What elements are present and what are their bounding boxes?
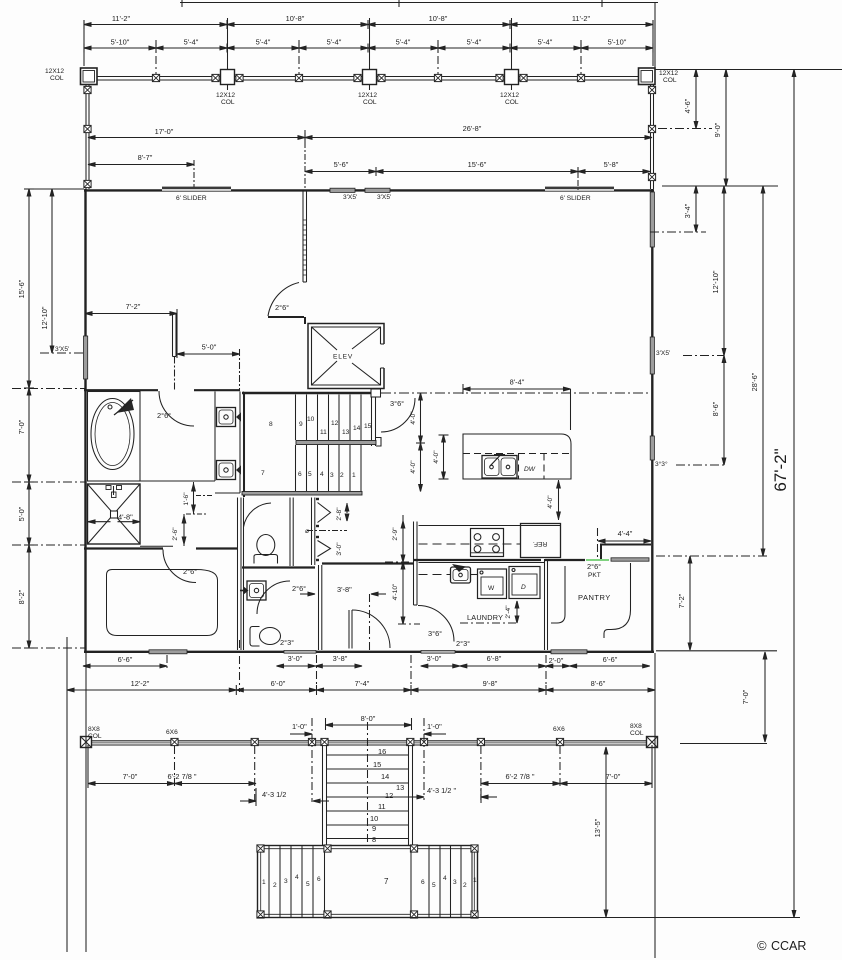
bath top wall xyxy=(84,389,240,391)
overall dim 67'-2" xyxy=(771,70,796,918)
stair risers upper run xyxy=(296,395,362,441)
house right wall xyxy=(651,189,653,653)
svg-text:4: 4 xyxy=(295,874,299,881)
entry door 2'6" arc xyxy=(268,283,299,317)
svg-text:ELEV: ELEV xyxy=(333,354,353,361)
chase walls xyxy=(312,498,315,566)
svg-text:12X12: 12X12 xyxy=(358,92,377,99)
svg-text:11: 11 xyxy=(378,802,386,811)
svg-text:17'-0": 17'-0" xyxy=(155,127,174,136)
stair mid landing rail xyxy=(296,438,381,447)
stair east wall xyxy=(372,397,376,446)
laundry dim 2'-4" xyxy=(460,601,519,623)
svg-text:PANTRY: PANTRY xyxy=(578,593,611,602)
svg-text:2: 2 xyxy=(340,472,344,479)
site boundary verticals xyxy=(67,637,655,958)
copyright CCAR xyxy=(757,938,806,953)
landing tread numbers xyxy=(262,874,477,889)
top cut-off border line xyxy=(180,0,658,7)
svg-text:10: 10 xyxy=(307,416,315,423)
porch dim 17'-0" and 26'-8" xyxy=(88,124,652,142)
refrigerator xyxy=(521,524,561,558)
svg-text:14: 14 xyxy=(381,772,389,781)
svg-text:10: 10 xyxy=(370,814,378,823)
12X12 column B xyxy=(212,70,243,85)
svg-text:9: 9 xyxy=(299,421,303,428)
svg-text:12'-10": 12'-10" xyxy=(711,270,720,293)
bath door 2'6" arc xyxy=(157,391,194,426)
powder sink xyxy=(240,581,266,600)
svg-text:2°6°: 2°6° xyxy=(587,562,601,571)
svg-text:4'-10": 4'-10" xyxy=(392,583,399,600)
svg-text:4'-4": 4'-4" xyxy=(618,529,633,538)
stair tread numbers xyxy=(261,416,372,479)
svg-text:15: 15 xyxy=(364,423,372,430)
shower xyxy=(88,484,141,544)
laundry sink xyxy=(451,564,471,583)
upper stair treads xyxy=(327,755,409,839)
bottom wall windows 3'x5' xyxy=(149,650,187,654)
svg-text:2°6°: 2°6° xyxy=(183,567,197,576)
3'x5' window top A xyxy=(330,188,355,192)
hall dim 3'-8" xyxy=(300,585,386,651)
dim 3'-0" vertical hall xyxy=(305,528,320,535)
svg-text:4: 4 xyxy=(320,471,324,478)
svg-text:3'-0": 3'-0" xyxy=(336,542,343,556)
svg-text:5: 5 xyxy=(432,882,436,889)
pocket door green label 2'6" PKT xyxy=(586,560,609,579)
3'x5' window left wall xyxy=(84,336,88,379)
svg-text:8X8: 8X8 xyxy=(630,723,642,730)
svg-text:28'-6": 28'-6" xyxy=(750,372,759,391)
bottom extension dash-dot lines xyxy=(167,640,546,692)
svg-text:5'-4": 5'-4" xyxy=(396,38,411,47)
pantry shelf outline right xyxy=(604,563,631,638)
left dim column 15'-6"/7'-0"/5'-0"/8'-2" xyxy=(17,189,34,648)
left dim 12'-10" xyxy=(29,189,84,353)
svg-text:5'-0": 5'-0" xyxy=(202,343,217,352)
svg-text:CCAR: CCAR xyxy=(771,939,806,953)
tub room xyxy=(88,392,141,482)
master bedroom east wall xyxy=(173,314,177,390)
right horizontal line at porch wall level xyxy=(662,185,778,187)
svg-text:3°3°: 3°3° xyxy=(655,460,668,468)
svg-text:3°6°: 3°6° xyxy=(390,399,404,408)
bed2 top wall xyxy=(84,546,238,548)
pocket door pocket (gray) xyxy=(611,558,649,561)
svg-text:2: 2 xyxy=(463,882,467,889)
landing deck xyxy=(258,846,478,918)
svg-text:5'-10": 5'-10" xyxy=(608,38,627,47)
svg-text:15'-6": 15'-6" xyxy=(17,279,26,298)
vanity sink 1 xyxy=(217,408,242,427)
dimension row 2: 5'-10" / 5'-4" x6 / 5'-10" xyxy=(84,38,653,53)
svg-text:8: 8 xyxy=(269,421,273,428)
svg-text:14: 14 xyxy=(353,425,361,432)
dim 4'-4" xyxy=(598,528,652,560)
lower porch 6x6 columns xyxy=(171,738,178,745)
bottom wall sills xyxy=(284,650,316,653)
porch beam (double line) xyxy=(84,77,654,81)
svg-text:12X12: 12X12 xyxy=(500,92,519,99)
svg-text:2'-9": 2'-9" xyxy=(392,527,399,541)
right top horizontal line xyxy=(655,69,842,71)
svg-text:7'-2": 7'-2" xyxy=(126,302,141,311)
svg-text:6'-2 7/8 ": 6'-2 7/8 " xyxy=(505,772,534,781)
svg-text:7'-0": 7'-0" xyxy=(606,772,621,781)
dims 1'-0" xyxy=(290,722,446,736)
dryer xyxy=(509,567,540,599)
washer xyxy=(478,569,507,599)
dims 4'-3 1/2" xyxy=(240,786,497,806)
svg-text:8'-6": 8'-6" xyxy=(711,401,720,416)
bath2 door arc xyxy=(244,503,272,527)
svg-text:3'X5': 3'X5' xyxy=(377,194,391,201)
svg-text:6'-2 7/8 ": 6'-2 7/8 " xyxy=(167,772,196,781)
svg-text:8'-7": 8'-7" xyxy=(138,153,153,162)
svg-text:5'-4": 5'-4" xyxy=(538,38,553,47)
bath small dims 1'-6" 2'-6" xyxy=(172,482,214,546)
svg-text:3'-0": 3'-0" xyxy=(288,654,303,663)
right dim 9'-0" xyxy=(713,70,728,187)
house bottom wall xyxy=(84,651,654,653)
peninsula dims 2'-9" 4'-10" xyxy=(385,515,420,624)
bifold closet doors xyxy=(316,499,331,560)
svg-text:3'X5': 3'X5' xyxy=(656,350,670,357)
svg-text:5'-0": 5'-0" xyxy=(17,506,26,521)
bed2 door arc xyxy=(163,550,197,583)
upper stair run stringers xyxy=(323,745,413,845)
svg-text:10'-8": 10'-8" xyxy=(429,14,448,23)
bed2 west wall xyxy=(238,498,242,651)
right wall windows xyxy=(650,192,654,247)
pantry west wall xyxy=(545,559,548,650)
kitchen division dash-dot line xyxy=(381,392,650,394)
svg-text:3: 3 xyxy=(453,879,457,886)
powder top wall xyxy=(242,566,315,568)
entry wall stub from top wall xyxy=(303,191,307,282)
svg-text:6: 6 xyxy=(298,471,302,478)
svg-text:2°3°: 2°3° xyxy=(456,639,470,648)
svg-text:8: 8 xyxy=(372,835,376,844)
svg-text:12: 12 xyxy=(331,420,339,427)
svg-text:2: 2 xyxy=(273,882,277,889)
laundry north wall xyxy=(413,559,585,561)
svg-text:W: W xyxy=(488,585,495,592)
svg-text:2°6°: 2°6° xyxy=(157,411,171,420)
svg-text:2'-8": 2'-8" xyxy=(336,507,343,521)
elevator shaft xyxy=(308,324,384,389)
svg-text:4'-0": 4'-0" xyxy=(547,495,554,509)
svg-text:©: © xyxy=(757,938,767,953)
dimension row 1: 11'-2" / 10'-8" / 10'-8" / 11'-2" xyxy=(84,14,653,29)
svg-text:7'-0": 7'-0" xyxy=(741,689,750,704)
elevator-side wall hook xyxy=(371,389,381,397)
svg-text:6X6: 6X6 xyxy=(166,729,178,736)
svg-text:PKT: PKT xyxy=(588,572,601,579)
svg-text:5: 5 xyxy=(308,471,312,478)
6' slider door right xyxy=(545,187,614,192)
svg-text:15: 15 xyxy=(373,760,381,769)
svg-text:COL: COL xyxy=(363,99,377,106)
svg-text:3: 3 xyxy=(330,472,334,479)
intermediate porch posts xyxy=(152,74,584,81)
ground line xyxy=(257,917,800,919)
lower porch corner columns 8x8 xyxy=(81,737,92,748)
svg-text:3'-0": 3'-0" xyxy=(427,654,442,663)
column centerline extensions xyxy=(84,3,655,69)
hall door 3'6" arc xyxy=(381,398,415,432)
porch dim 8'-7" xyxy=(88,153,194,189)
12X12 column D xyxy=(496,70,527,85)
svg-text:5'-4": 5'-4" xyxy=(327,38,342,47)
svg-text:8'-2": 8'-2" xyxy=(17,589,26,604)
vanity sink 2 xyxy=(217,461,242,480)
corner column 12X12 top-left xyxy=(81,68,98,85)
lower porch column labels xyxy=(88,723,644,740)
porch dim 5'-6" / 15'-6" / 5'-8" xyxy=(305,130,650,190)
svg-text:12: 12 xyxy=(385,791,393,800)
svg-text:5'-10": 5'-10" xyxy=(111,38,130,47)
range 4 burners xyxy=(471,529,504,557)
stair west wall xyxy=(244,393,246,497)
bed3 door leaf and arc xyxy=(349,610,390,649)
svg-text:1'-0": 1'-0" xyxy=(292,722,307,731)
svg-text:LAUNDRY: LAUNDRY xyxy=(467,613,503,622)
column labels xyxy=(45,68,678,106)
svg-text:7'-4": 7'-4" xyxy=(355,679,370,688)
island-wall dim 4'-0" xyxy=(547,480,560,520)
svg-text:7'-0": 7'-0" xyxy=(17,419,26,434)
svg-text:8X8: 8X8 xyxy=(88,726,100,733)
svg-text:4'-0": 4'-0" xyxy=(410,411,417,425)
wall below entry door xyxy=(268,317,305,324)
svg-text:2°6°: 2°6° xyxy=(275,303,289,312)
right dim 3'-4" xyxy=(650,186,706,232)
powder door arc xyxy=(257,581,306,614)
svg-text:9'-0": 9'-0" xyxy=(713,122,722,137)
svg-text:4'-8": 4'-8" xyxy=(118,513,133,522)
svg-text:3: 3 xyxy=(284,878,288,885)
svg-text:D: D xyxy=(521,584,526,591)
house left wall xyxy=(84,189,86,653)
svg-text:4'-0": 4'-0" xyxy=(410,460,417,474)
svg-text:REF.: REF. xyxy=(533,540,547,547)
svg-text:4: 4 xyxy=(443,875,447,882)
bottom dim row 1 xyxy=(83,654,650,668)
svg-text:2°6°: 2°6° xyxy=(292,584,306,593)
svg-text:11: 11 xyxy=(320,429,327,436)
upper stair numbers 16-8 xyxy=(370,747,404,844)
svg-text:5'-6": 5'-6" xyxy=(334,160,349,169)
kitchen island xyxy=(463,434,571,479)
svg-text:13'-5": 13'-5" xyxy=(593,818,602,837)
stair risers lower run xyxy=(296,445,362,491)
svg-text:12X12: 12X12 xyxy=(216,92,235,99)
corner column 12X12 top-right xyxy=(639,68,656,85)
svg-text:7'-2": 7'-2" xyxy=(677,593,686,608)
svg-text:6: 6 xyxy=(421,879,425,886)
pantry shelf outline left xyxy=(551,566,565,623)
svg-text:4'-0": 4'-0" xyxy=(433,450,440,464)
svg-text:16: 16 xyxy=(378,747,386,756)
svg-text:DW: DW xyxy=(524,466,536,473)
svg-text:COL: COL xyxy=(630,730,644,737)
kitchen island dim 8'-4" xyxy=(463,378,571,431)
svg-text:4'-3 1/2: 4'-3 1/2 xyxy=(262,790,286,799)
svg-text:COL: COL xyxy=(50,75,64,82)
toilet lower xyxy=(250,627,281,647)
dims 7'-0" and 6'-2 7/8" left xyxy=(88,745,256,788)
svg-text:3°6°: 3°6° xyxy=(428,629,442,638)
svg-text:10'-8": 10'-8" xyxy=(286,14,305,23)
svg-text:4'-3 1/2 ": 4'-3 1/2 " xyxy=(427,786,456,795)
porch side rails xyxy=(84,85,656,190)
svg-text:2'-6": 2'-6" xyxy=(172,527,179,541)
svg-text:12'-2": 12'-2" xyxy=(131,679,150,688)
lower porch beam xyxy=(84,741,654,745)
landing corner posts xyxy=(257,845,264,852)
top wall labels xyxy=(176,194,591,202)
svg-text:COL: COL xyxy=(505,99,519,106)
12X12 column C xyxy=(354,70,385,85)
svg-text:COL: COL xyxy=(88,733,102,740)
svg-text:11'-2": 11'-2" xyxy=(112,14,131,23)
kitchen counter outline xyxy=(419,526,561,575)
landing right treads xyxy=(411,846,472,917)
svg-text:4'-6": 4'-6" xyxy=(683,98,692,113)
svg-text:7: 7 xyxy=(384,877,389,886)
svg-text:12X12: 12X12 xyxy=(659,70,678,77)
bed2 inner outline xyxy=(107,570,218,636)
svg-text:12'-10": 12'-10" xyxy=(40,306,49,329)
right 3'0 3'0 window label xyxy=(655,460,724,468)
svg-text:6'-6": 6'-6" xyxy=(603,655,618,664)
svg-text:8'-4": 8'-4" xyxy=(510,378,525,387)
right 3'x5' window label xyxy=(656,350,724,357)
svg-text:13: 13 xyxy=(342,429,350,436)
svg-text:COL: COL xyxy=(221,99,235,106)
svg-text:7'-0": 7'-0" xyxy=(123,772,138,781)
svg-text:11'-2": 11'-2" xyxy=(572,14,591,23)
stair hall top wall xyxy=(242,392,371,394)
svg-text:1'-6": 1'-6" xyxy=(183,492,190,506)
svg-text:3'-8": 3'-8" xyxy=(333,654,348,663)
svg-text:1: 1 xyxy=(352,472,356,479)
right dim 12'-10" xyxy=(711,186,726,356)
svg-text:7: 7 xyxy=(261,470,265,477)
vanity counter xyxy=(88,392,244,498)
stair bottom edge xyxy=(242,492,362,496)
3'x5' window top B xyxy=(365,188,390,192)
hall dims 4'-0" x2 xyxy=(410,393,425,492)
svg-text:5'-4": 5'-4" xyxy=(256,38,271,47)
beam extension right xyxy=(680,743,767,745)
svg-text:9'-8": 9'-8" xyxy=(483,679,498,688)
laundry door 3'6" arc xyxy=(418,606,470,649)
6' slider door left xyxy=(162,187,231,192)
powder room west wall xyxy=(243,498,245,651)
closet wall above pantry xyxy=(600,545,651,560)
svg-text:5'-8": 5'-8" xyxy=(604,160,619,169)
right dim 8'-6" xyxy=(711,356,726,466)
svg-text:13: 13 xyxy=(396,783,404,792)
svg-text:ø: ø xyxy=(305,528,309,535)
svg-text:2'-0": 2'-0" xyxy=(549,656,564,665)
svg-text:1'-0": 1'-0" xyxy=(427,722,442,731)
svg-text:5'-4": 5'-4" xyxy=(467,38,482,47)
island dim 4'-0" xyxy=(433,435,449,479)
landing left treads xyxy=(269,846,325,917)
svg-text:6'-0": 6'-0" xyxy=(271,679,286,688)
svg-text:5: 5 xyxy=(306,881,310,888)
dims 6'-2 7/8" and 7'-0" right xyxy=(481,745,652,788)
svg-text:3'X5': 3'X5' xyxy=(343,194,357,201)
svg-text:6'-8": 6'-8" xyxy=(487,654,502,663)
house top wall xyxy=(84,189,654,191)
svg-text:6: 6 xyxy=(317,876,321,883)
dim 8'-0" stair width xyxy=(326,714,412,730)
master dim 5'-0" xyxy=(177,318,240,391)
svg-text:COL: COL xyxy=(663,77,677,84)
svg-text:6' SLIDER: 6' SLIDER xyxy=(176,195,207,202)
island sink xyxy=(482,455,517,478)
svg-text:2°3°: 2°3° xyxy=(280,638,294,647)
svg-text:15'-6": 15'-6" xyxy=(468,160,487,169)
svg-text:26'-8": 26'-8" xyxy=(463,124,482,133)
svg-text:5'-4": 5'-4" xyxy=(184,38,199,47)
svg-text:6'-6": 6'-6" xyxy=(118,655,133,664)
svg-text:6' SLIDER: 6' SLIDER xyxy=(560,195,591,202)
porch column centerlines xyxy=(175,718,561,845)
right dim 7'-0" lower xyxy=(656,651,777,742)
svg-text:67'-2": 67'-2" xyxy=(771,448,790,491)
svg-text:3'-8": 3'-8" xyxy=(337,585,352,594)
bath2 east wall xyxy=(290,498,293,567)
svg-text:2'-4": 2'-4" xyxy=(505,605,512,619)
svg-text:6X6: 6X6 xyxy=(553,726,565,733)
svg-text:12X12: 12X12 xyxy=(45,68,64,75)
toilet upper xyxy=(254,535,278,564)
right dim 4'-6" xyxy=(658,70,712,129)
svg-text:3'-4": 3'-4" xyxy=(683,203,692,218)
right dim 28'-6" xyxy=(750,186,765,556)
bottom dim row 2 xyxy=(67,679,655,695)
left extension dash-dot lines xyxy=(12,353,86,648)
closet dims rotated xyxy=(320,503,349,556)
master dim 7'-2" xyxy=(85,302,177,318)
svg-text:1: 1 xyxy=(473,877,477,884)
svg-text:8'-0": 8'-0" xyxy=(361,714,376,723)
svg-text:8'-6": 8'-6" xyxy=(591,679,606,688)
bed3 west wall xyxy=(319,564,414,651)
dim 13'-5" xyxy=(593,747,608,917)
kitchen peninsula wall xyxy=(414,522,418,606)
svg-text:3'X5': 3'X5' xyxy=(55,346,69,353)
svg-text:1: 1 xyxy=(262,879,266,886)
svg-text:9: 9 xyxy=(372,824,376,833)
right dim 7'-2" xyxy=(656,556,770,650)
